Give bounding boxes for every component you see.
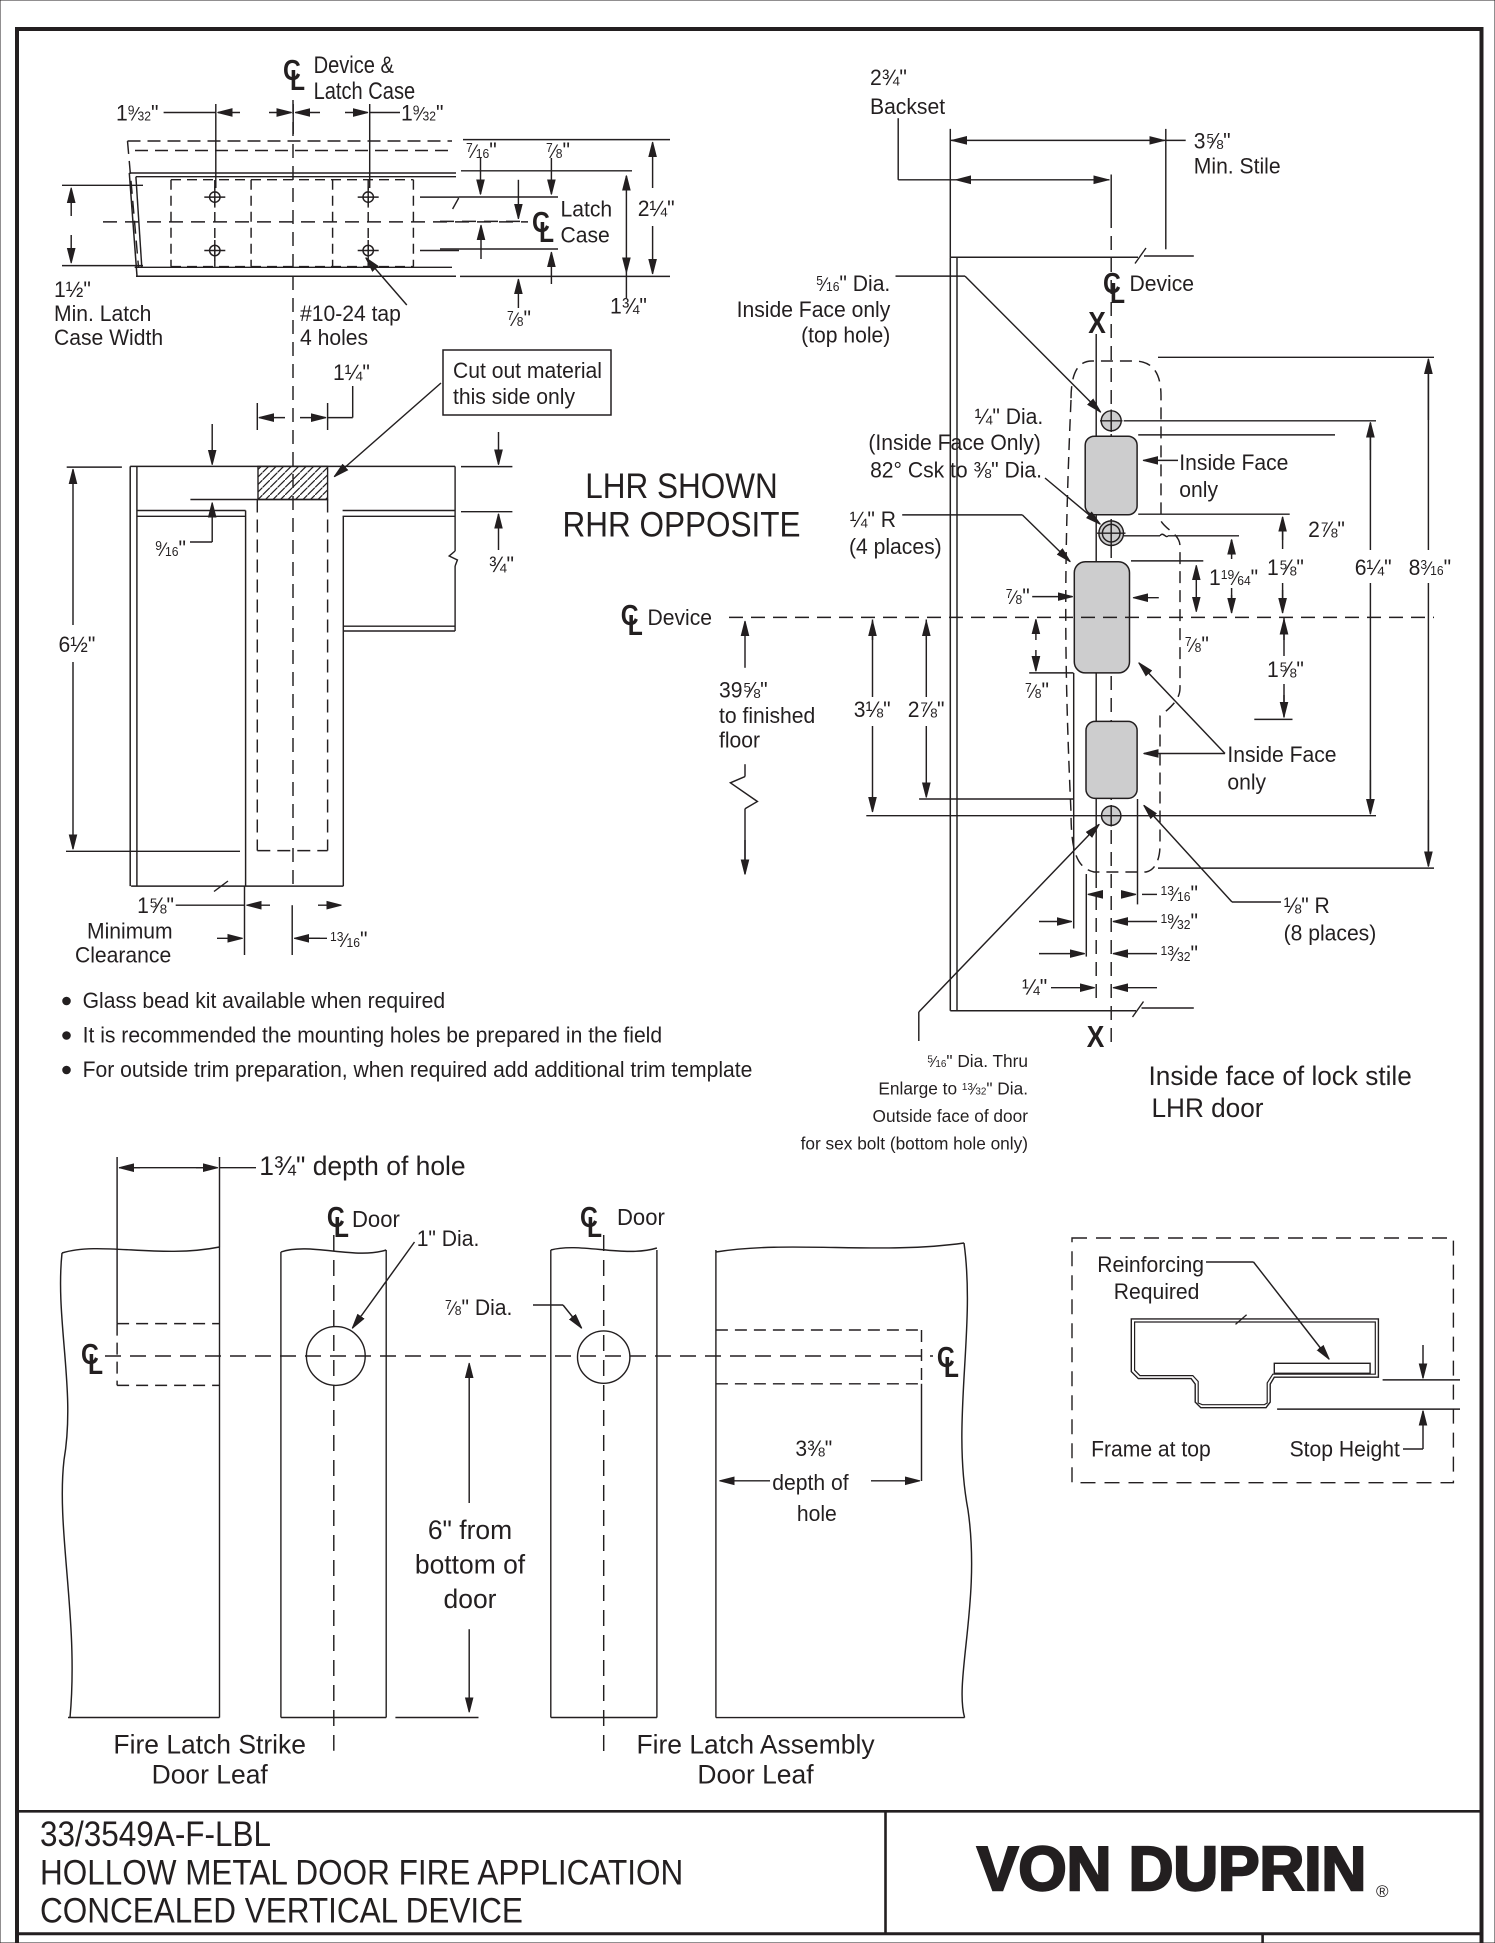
svg-text:(Inside Face Only): (Inside Face Only)	[868, 430, 1040, 456]
svg-text:Fire Latch Strike: Fire Latch Strike	[113, 1729, 306, 1759]
svg-text:depth of: depth of	[772, 1470, 849, 1496]
svg-text:3⅝": 3⅝"	[1194, 128, 1231, 154]
svg-text:Required: Required	[1114, 1279, 1200, 1305]
svg-text:¾": ¾"	[489, 552, 514, 578]
svg-text:1⅝": 1⅝"	[1267, 555, 1304, 581]
svg-text:Inside Face: Inside Face	[1227, 742, 1336, 768]
svg-text:only: only	[1179, 477, 1218, 503]
svg-text:Minimum: Minimum	[87, 918, 173, 944]
svg-text:door: door	[444, 1584, 497, 1614]
svg-text:L: L	[88, 1348, 103, 1380]
svg-text:VON DUPRIN: VON DUPRIN	[977, 1835, 1366, 1904]
svg-text:¼": ¼"	[1022, 974, 1047, 1000]
svg-text:#10-24 tap: #10-24 tap	[300, 301, 401, 327]
svg-text:2¾": 2¾"	[870, 65, 907, 91]
svg-text:Reinforcing: Reinforcing	[1097, 1252, 1204, 1278]
svg-text:LHR SHOWN: LHR SHOWN	[585, 468, 777, 507]
svg-text:Device: Device	[1130, 271, 1195, 297]
svg-text:1⅝": 1⅝"	[1267, 657, 1304, 683]
svg-text:⅛" R: ⅛" R	[1284, 893, 1330, 919]
svg-text:6¼": 6¼"	[1355, 555, 1392, 581]
svg-text:L: L	[334, 1211, 349, 1243]
svg-text:bottom of: bottom of	[415, 1549, 526, 1579]
svg-text:only: only	[1227, 769, 1266, 795]
svg-text:(8 places): (8 places)	[1284, 920, 1377, 946]
svg-text:to finished: to finished	[719, 703, 815, 729]
svg-text:Latch: Latch	[561, 196, 613, 222]
svg-text:Fire Latch Assembly: Fire Latch Assembly	[636, 1729, 875, 1759]
svg-text:floor: floor	[719, 727, 760, 753]
svg-text:2⅞": 2⅞"	[908, 697, 945, 723]
svg-text:CONCEALED VERTICAL DEVICE: CONCEALED VERTICAL DEVICE	[40, 1892, 523, 1931]
svg-text:L: L	[539, 216, 554, 248]
svg-text:19⁄32": 19⁄32"	[401, 100, 443, 126]
svg-text:It is recommended the mounting: It is recommended the mounting holes be …	[83, 1022, 663, 1048]
svg-text:Enlarge to 13⁄32" Dia.: Enlarge to 13⁄32" Dia.	[878, 1078, 1028, 1098]
svg-text:Door: Door	[617, 1205, 665, 1231]
svg-text:19⁄32": 19⁄32"	[116, 100, 158, 126]
svg-text:Min. Latch: Min. Latch	[54, 301, 151, 327]
svg-text:this side only: this side only	[453, 384, 575, 410]
svg-text:L: L	[628, 609, 643, 641]
svg-text:Door Leaf: Door Leaf	[152, 1759, 269, 1789]
svg-text:Glass bead kit available when: Glass bead kit available when required	[83, 988, 445, 1014]
svg-text:1¾": 1¾"	[610, 293, 647, 319]
svg-text:Device: Device	[648, 605, 713, 631]
svg-text:¼" Dia.: ¼" Dia.	[975, 404, 1043, 430]
svg-text:4 holes: 4 holes	[300, 325, 368, 351]
svg-text:L: L	[587, 1211, 602, 1243]
svg-text:1⅝": 1⅝"	[137, 893, 174, 919]
svg-text:Device &: Device &	[314, 51, 394, 78]
svg-text:1½": 1½"	[54, 277, 91, 303]
svg-text:(top hole): (top hole)	[801, 322, 890, 348]
svg-text:119⁄64": 119⁄64"	[1209, 565, 1258, 591]
svg-text:Door: Door	[352, 1207, 400, 1233]
svg-text:33/3549A-F-LBL: 33/3549A-F-LBL	[40, 1816, 271, 1855]
svg-text:Case Width: Case Width	[54, 325, 163, 351]
svg-text:82° Csk to ⅜" Dia.: 82° Csk to ⅜" Dia.	[870, 457, 1042, 483]
svg-text:3⅜": 3⅜"	[795, 1436, 832, 1462]
svg-text:Frame at top: Frame at top	[1091, 1436, 1211, 1462]
svg-text:L: L	[1110, 277, 1125, 309]
svg-text:L: L	[944, 1351, 959, 1383]
svg-text:1" Dia.: 1" Dia.	[417, 1226, 480, 1252]
svg-text:hole: hole	[797, 1501, 837, 1527]
svg-text:Inside Face: Inside Face	[1179, 450, 1288, 476]
svg-text:L: L	[290, 64, 305, 96]
svg-text:for sex bolt (bottom hole only: for sex bolt (bottom hole only)	[801, 1133, 1028, 1153]
svg-text:Clearance: Clearance	[75, 942, 171, 968]
svg-text:Latch Case: Latch Case	[314, 77, 416, 104]
svg-text:®: ®	[1376, 1882, 1389, 1901]
svg-text:Case: Case	[561, 222, 610, 248]
svg-text:X: X	[1087, 1020, 1105, 1054]
svg-text:1¼": 1¼"	[333, 360, 370, 386]
svg-text:Outside face of door: Outside face of door	[873, 1106, 1029, 1126]
svg-text:Cut out material: Cut out material	[453, 358, 602, 384]
svg-text:6½": 6½"	[59, 632, 96, 658]
svg-text:Inside Face only: Inside Face only	[737, 297, 891, 323]
svg-text:(4 places): (4 places)	[849, 534, 942, 560]
svg-text:Backset: Backset	[870, 94, 945, 120]
svg-text:1¾" depth of hole: 1¾" depth of hole	[259, 1151, 465, 1181]
svg-text:2⅞": 2⅞"	[1308, 517, 1345, 543]
svg-text:6" from: 6" from	[428, 1515, 512, 1545]
svg-text:RHR OPPOSITE: RHR OPPOSITE	[563, 506, 801, 545]
svg-text:Inside face of lock stile: Inside face of lock stile	[1149, 1061, 1412, 1091]
svg-text:Stop Height: Stop Height	[1290, 1436, 1400, 1462]
svg-text:Door Leaf: Door Leaf	[697, 1759, 814, 1789]
svg-text:HOLLOW METAL DOOR FIRE APPLICA: HOLLOW METAL DOOR FIRE APPLICATION	[40, 1854, 683, 1893]
svg-text:X: X	[1088, 306, 1106, 340]
svg-text:2¼": 2¼"	[638, 196, 675, 222]
svg-text:39⅝": 39⅝"	[719, 677, 768, 703]
svg-text:83⁄16": 83⁄16"	[1409, 555, 1451, 581]
svg-text:¼" R: ¼" R	[850, 507, 896, 533]
svg-text:LHR door: LHR door	[1152, 1093, 1264, 1123]
svg-text:Min. Stile: Min. Stile	[1194, 153, 1281, 179]
svg-text:3⅛": 3⅛"	[854, 697, 891, 723]
svg-text:For outside trim preparation,: For outside trim preparation, when requi…	[83, 1057, 753, 1083]
